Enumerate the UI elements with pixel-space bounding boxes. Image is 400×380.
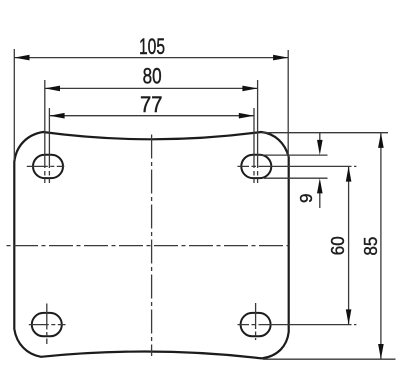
svg-text:60: 60 bbox=[327, 236, 348, 255]
svg-text:80: 80 bbox=[143, 64, 162, 89]
extension line 85 bottom bbox=[263, 358, 396, 360]
dimension 9 upper arrow bbox=[317, 133, 323, 155]
extension line 9 top tangent bbox=[259, 154, 328, 156]
hole top-left (slot) bbox=[33, 155, 63, 178]
horizontal centerline bbox=[7, 245, 289, 247]
extension line 80 left bbox=[44, 80, 46, 184]
dimension line 77 bbox=[49, 113, 254, 119]
extension line 77 right bbox=[253, 108, 255, 184]
vertical centerline bbox=[151, 135, 153, 357]
plate outline bbox=[14, 132, 288, 358]
dimension line 105 bbox=[14, 55, 288, 61]
svg-text:105: 105 bbox=[139, 34, 165, 59]
dimension line 85 bbox=[378, 133, 384, 360]
extension line 105 left bbox=[13, 49, 15, 160]
svg-text:77: 77 bbox=[140, 92, 163, 117]
extension line 77 left bbox=[48, 108, 50, 184]
extension line 9 bottom tangent bbox=[264, 177, 328, 179]
dimension line 80 bbox=[45, 86, 258, 92]
svg-text:9: 9 bbox=[296, 193, 316, 203]
extension line 105 right bbox=[287, 50, 289, 157]
crosshair top-left hole horizontal bbox=[27, 165, 65, 167]
hole bottom-right (slot) bbox=[241, 313, 271, 336]
crosshair top-right hole horizontal / 60 top extension bbox=[238, 165, 357, 167]
crosshair bottom-left hole horizontal bbox=[29, 324, 66, 326]
extension line 80 right bbox=[257, 80, 259, 184]
crosshair bottom-left hole vertical bbox=[46, 304, 48, 345]
dimension line 60 bbox=[346, 166, 352, 324]
crosshair bottom-right hole vertical bbox=[255, 303, 257, 340]
svg-text:85: 85 bbox=[360, 237, 381, 256]
hole bottom-left (slot) bbox=[32, 313, 62, 336]
crosshair bottom-right hole horizontal / 60 bottom extension bbox=[238, 324, 357, 326]
extension line 85 top bbox=[262, 132, 388, 134]
dimension 9 lower arrow bbox=[317, 178, 323, 208]
hole top-right (slot) bbox=[241, 155, 271, 178]
